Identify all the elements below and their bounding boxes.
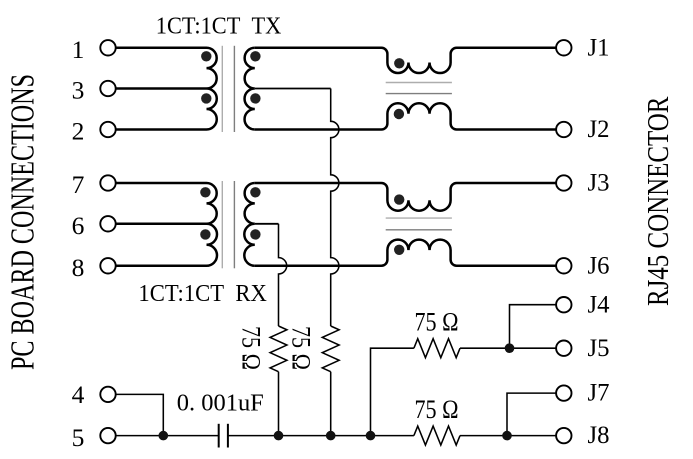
svg-text:0. 001uF: 0. 001uF — [177, 389, 264, 416]
pin 2 terminal — [100, 122, 115, 137]
wire R2 to ground rail — [330, 372, 332, 436]
svg-text:3: 3 — [72, 76, 85, 105]
pin 3 terminal — [100, 81, 115, 96]
transformer T1 secondary winding — [245, 48, 255, 130]
J7 terminal — [556, 385, 571, 400]
wire R3 to J5 — [460, 347, 556, 349]
svg-text:PC BOARD CONNECTIONS: PC BOARD CONNECTIONS — [5, 74, 42, 370]
svg-text:J3: J3 — [588, 168, 610, 197]
L1 phase dots — [394, 58, 405, 119]
svg-text:J5: J5 — [588, 333, 610, 362]
svg-text:J7: J7 — [588, 378, 610, 407]
junction J4/J5 node — [505, 343, 515, 353]
wire rail up to resistor R3 — [371, 348, 414, 435]
L2 phase dots — [394, 194, 404, 255]
junction J7 branch on rail — [502, 431, 512, 441]
svg-text:6: 6 — [72, 211, 85, 240]
svg-text:75 Ω: 75 Ω — [287, 326, 316, 370]
transformer T1 TX primary winding — [207, 48, 217, 130]
ground rail R4 to J8 — [460, 435, 556, 437]
svg-text:J2: J2 — [588, 114, 610, 143]
wire R1 to ground rail — [278, 372, 280, 436]
J4 terminal — [556, 297, 571, 312]
svg-text:2: 2 — [72, 117, 85, 146]
transformer T2 RX primary winding — [207, 183, 218, 266]
junction R2 on rail — [326, 431, 336, 441]
wire T1 secondary to choke L1 top and J1 — [255, 48, 556, 73]
wire T1 secondary center tap — [255, 88, 331, 90]
svg-text:1CT:1CT TX: 1CT:1CT TX — [156, 12, 282, 39]
capacitor C1 0.001uF plates — [219, 424, 228, 448]
pin 6 terminal — [100, 216, 115, 231]
resistor R1 75ohm vertical — [270, 326, 287, 372]
resistor R2 75ohm vertical — [322, 326, 339, 372]
svg-text:5: 5 — [72, 423, 85, 452]
svg-text:1CT:1CT RX: 1CT:1CT RX — [138, 280, 267, 307]
wire T2 secondary to choke L2 top and J3 — [255, 183, 556, 211]
J5 terminal — [556, 341, 571, 356]
ground rail capacitor to R4 — [228, 435, 414, 437]
svg-text:J4: J4 — [588, 289, 610, 318]
wire pin 3 to T1 primary center tap — [116, 87, 206, 90]
wire T2 secondary to choke L2 bottom and J6 — [255, 240, 556, 266]
junction R1 on rail — [274, 431, 284, 441]
wire pin 6 to T2 primary center tap — [116, 223, 206, 226]
J1 terminal — [556, 40, 571, 55]
junction pin4/pin5 node — [159, 431, 169, 441]
wire pin 8 to T2 primary — [116, 265, 206, 268]
wire T2 center tap vertical with hop to R1 — [279, 224, 287, 326]
J2 terminal — [556, 122, 571, 137]
wire pin 7 to T2 primary — [116, 182, 206, 185]
J8 terminal — [556, 428, 571, 443]
T2 phase dots — [200, 187, 260, 239]
wire T1 center tap vertical with hops to R2 — [331, 89, 339, 327]
svg-text:J6: J6 — [588, 250, 610, 279]
transformer T2 secondary winding — [244, 183, 254, 266]
svg-text:8: 8 — [72, 253, 85, 282]
svg-text:1: 1 — [72, 35, 85, 64]
junction R3 branch on rail — [366, 431, 376, 441]
T1 phase dots — [201, 51, 261, 104]
svg-text:75 Ω: 75 Ω — [415, 308, 459, 337]
J6 terminal — [556, 258, 571, 273]
svg-text:J8: J8 — [588, 420, 610, 449]
wire rail up to J7 — [507, 393, 556, 436]
svg-text:75 Ω: 75 Ω — [237, 326, 266, 370]
svg-text:75 Ω: 75 Ω — [415, 395, 459, 424]
J3 terminal — [556, 175, 571, 190]
wire T2 secondary center tap — [255, 223, 279, 225]
pin 8 terminal — [100, 258, 115, 273]
svg-text:4: 4 — [72, 380, 85, 409]
pin 7 terminal — [100, 175, 115, 190]
choke L2 core — [386, 218, 452, 230]
wire pin 5 to capacitor C1 — [116, 435, 219, 437]
wire pin 4 down to rail — [116, 394, 163, 435]
resistor R3 75ohm horizontal — [414, 339, 460, 358]
transformer T2 core — [222, 181, 234, 268]
svg-text:7: 7 — [72, 170, 85, 199]
pin 4 terminal — [100, 387, 115, 402]
transformer T1 core — [222, 46, 234, 132]
pin 5 terminal — [100, 428, 115, 443]
resistor R4 75ohm horizontal on rail — [414, 426, 460, 445]
wire T1 secondary to choke L1 bottom and J2 — [255, 103, 556, 129]
wire pin 2 to T1 primary — [116, 128, 206, 131]
pin 1 terminal — [100, 40, 115, 55]
wire pin 1 to T1 primary — [116, 47, 206, 50]
choke L1 core — [386, 83, 452, 94]
svg-text:RJ45 CONNECTOR: RJ45 CONNECTOR — [640, 96, 675, 306]
svg-text:J1: J1 — [588, 32, 610, 61]
wire node J5 up to J4 — [510, 305, 557, 349]
